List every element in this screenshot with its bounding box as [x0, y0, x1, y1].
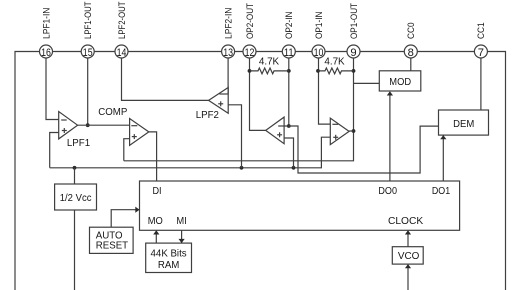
pin 13 (LPF2-IN): [222, 8, 235, 59]
pin 14 (LPF2-OUT): [115, 1, 128, 59]
svg-text:RAM: RAM: [158, 260, 180, 271]
wire feedback line from OP1 output: [124, 131, 354, 161]
wire LPF1 plus to Vcc/2 rail: [50, 133, 59, 168]
wire pin16 to LPF1 minus: [46, 52, 59, 120]
wire Vcc/2 rail to OP1 plus: [50, 137, 331, 168]
block MOD: [379, 71, 421, 91]
svg-text:CC0: CC0: [405, 22, 416, 39]
svg-text:12: 12: [245, 47, 255, 59]
svg-text:8: 8: [408, 47, 414, 59]
svg-text:11: 11: [284, 47, 294, 59]
wire OP2 output to pin12: [250, 52, 266, 130]
wire pin8 to MOD: [410, 52, 412, 71]
wire OP2 minus to DEM output: [284, 126, 438, 173]
svg-text:15: 15: [83, 47, 93, 59]
pin 9 (OP1-OUT): [347, 3, 360, 59]
pin 10 (OP1-IN): [312, 12, 325, 60]
wire pin11 to OP2 minus: [288, 52, 290, 126]
wire VCO to CLOCK with arrow: [407, 231, 409, 247]
wire VCO input with arrow: [407, 265, 409, 290]
wire pin9 to OP1 output: [353, 52, 355, 131]
svg-text:4.7K: 4.7K: [324, 57, 345, 68]
block AUTO RESET: [90, 227, 134, 253]
svg-text:LPF2-IN: LPF2-IN: [222, 8, 233, 39]
svg-text:1/2 Vcc: 1/2 Vcc: [60, 193, 92, 204]
outer IC boundary: [15, 52, 506, 290]
pin 12 (OP2-OUT): [243, 3, 256, 59]
wire pin15 to LPF1 output: [87, 52, 89, 125]
svg-text:OP1-OUT: OP1-OUT: [348, 3, 359, 39]
block DEM: [439, 110, 489, 135]
svg-text:7: 7: [478, 47, 484, 59]
pin 15 (LPF1-OUT): [81, 1, 94, 59]
svg-text:COMP: COMP: [98, 107, 127, 118]
svg-text:VCO: VCO: [398, 251, 420, 262]
pin 7 (CC1): [474, 22, 487, 59]
node resistor R2 left: [316, 69, 320, 73]
svg-text:MOD: MOD: [389, 77, 411, 88]
svg-text:CC1: CC1: [475, 22, 486, 39]
svg-text:13: 13: [223, 47, 233, 59]
node resistor R2 right: [352, 69, 356, 73]
wire 1/2 Vcc block to rail: [74, 168, 76, 184]
wire pin10 to OP1 minus: [319, 52, 331, 124]
wire DO0 to MOD with arrow: [389, 92, 391, 181]
node OP2 minus junction: [287, 124, 291, 128]
svg-text:RESET: RESET: [96, 241, 128, 252]
op-amp OP1: [330, 118, 349, 145]
node OP1 output junction: [352, 129, 356, 133]
svg-text:9: 9: [350, 47, 356, 59]
wire OP1 output tip: [349, 130, 353, 132]
svg-text:MI: MI: [176, 216, 186, 227]
resistor R1 4.7K: [250, 68, 289, 74]
svg-text:LPF2-OUT: LPF2-OUT: [116, 1, 127, 39]
node rail tap LPF2 plus: [240, 166, 244, 170]
svg-text:DEM: DEM: [453, 119, 474, 130]
svg-text:OP1-IN: OP1-IN: [313, 12, 324, 40]
wire pin7 to DEM: [480, 52, 482, 110]
svg-text:LPF2: LPF2: [196, 110, 219, 121]
pin 8 (CC0): [404, 22, 417, 59]
pin 16 (LPF1-IN): [40, 8, 53, 59]
svg-text:16: 16: [41, 47, 51, 59]
node rail tap 1/2Vcc: [73, 166, 77, 170]
resistor R2 4.7K: [318, 68, 354, 74]
svg-text:44K Bits: 44K Bits: [151, 249, 187, 260]
node resistor R1 left: [248, 69, 252, 73]
svg-text:LPF1-IN: LPF1-IN: [40, 8, 51, 39]
svg-text:DI: DI: [152, 186, 161, 197]
op-amp COMP: [98, 107, 149, 145]
wire pin14 to LPF2 output: [122, 52, 209, 100]
block 1/2 Vcc: [55, 184, 97, 210]
wire AUTO RESET to controller with arrow: [111, 210, 139, 227]
svg-text:CLOCK: CLOCK: [388, 216, 424, 227]
op-amp OP2: [266, 117, 284, 144]
node resistor R1 right: [287, 69, 291, 73]
svg-text:LPF1-OUT: LPF1-OUT: [82, 1, 93, 39]
pin 11 (OP2-IN): [282, 12, 295, 60]
wire LPF1 output to COMP minus: [78, 124, 130, 126]
wire 1/2 Vcc block down: [74, 210, 76, 290]
wire MI to RAM with arrow: [181, 230, 183, 242]
op-amp LPF1: [59, 112, 90, 150]
svg-text:DO1: DO1: [432, 186, 450, 197]
wire pin13 to LPF2 minus: [227, 52, 229, 94]
wire COMP plus to feedback line: [124, 139, 130, 161]
wire DO1 to DEM with arrow: [442, 136, 444, 181]
block VCO: [392, 247, 423, 264]
svg-text:14: 14: [117, 47, 127, 59]
wire RAM MO with arrow: [155, 231, 157, 243]
block 44K Bits RAM: [146, 243, 192, 272]
svg-text:LPF1: LPF1: [67, 138, 90, 149]
svg-text:MO: MO: [148, 216, 164, 227]
node rail tap OP2 plus: [292, 166, 296, 170]
wire pin9 line to MOD input: [354, 82, 380, 84]
wire OP2 plus to rail: [284, 138, 293, 168]
wire LPF2 plus to rail: [228, 105, 241, 168]
block logic/memory controller: [140, 181, 460, 230]
svg-text:OP2-IN: OP2-IN: [283, 12, 294, 40]
svg-text:10: 10: [314, 47, 324, 59]
wire COMP output to DI: [149, 132, 157, 181]
svg-text:DO0: DO0: [378, 186, 397, 197]
op-amp LPF2: [196, 88, 228, 122]
node LPF1 output junction: [86, 123, 90, 127]
svg-text:4.7K: 4.7K: [259, 56, 280, 67]
svg-text:OP2-OUT: OP2-OUT: [244, 3, 255, 39]
